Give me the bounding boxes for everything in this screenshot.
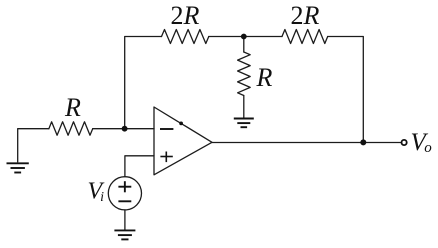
svg-text:Vi: Vi xyxy=(88,179,105,206)
source Vi polarity minus xyxy=(118,200,131,202)
source Vi polarity plus xyxy=(118,181,131,192)
svg-text:Vo: Vo xyxy=(411,129,433,156)
wire: top rail between R2a and node B xyxy=(209,36,244,38)
wire: node B to R2b xyxy=(244,36,282,38)
wire: op-amp non-inverting input down to source Vi xyxy=(125,156,154,177)
op-amp non-inverting input marker (plus) xyxy=(160,152,172,163)
wire: R3 lead down to middle ground xyxy=(243,96,245,118)
svg-text:2R: 2R xyxy=(171,1,200,30)
resistor R3 value R (vertical) xyxy=(238,52,251,96)
wire: top rail right corner down to output xyxy=(328,37,364,143)
resistor R2a value 2R (top-left) xyxy=(162,30,209,44)
resistor R1 value R (left) xyxy=(49,122,93,135)
dot on op-amp top edge xyxy=(179,122,183,126)
wire: R1 through node A into op-amp inverting input xyxy=(93,128,154,130)
ground (middle, below R3) xyxy=(234,119,254,128)
terminal Vo: open circle xyxy=(402,140,407,145)
wire: lead from node B down to resistor R3 xyxy=(243,37,245,53)
op-amp U1 triangle body xyxy=(154,107,212,175)
svg-text:R: R xyxy=(64,93,81,122)
wire: left ground riser and lead to R1 xyxy=(18,129,49,162)
ground (bottom, below source Vi) xyxy=(114,230,135,239)
source Vi circle xyxy=(108,177,141,210)
ground (left) xyxy=(7,163,29,172)
resistor R2b value 2R (top-right) xyxy=(282,30,328,44)
node C: output junction dot xyxy=(360,139,366,145)
op-amp inverting input marker (minus) xyxy=(160,128,173,130)
wire: source Vi to bottom ground xyxy=(124,210,126,230)
node A: inverting-input junction dot xyxy=(122,126,128,132)
svg-text:R: R xyxy=(256,63,273,92)
node B: top junction dot xyxy=(241,34,247,40)
svg-text:2R: 2R xyxy=(291,1,320,30)
wire: op-amp output to terminal xyxy=(212,142,401,144)
wire: node A up to top rail left corner xyxy=(125,37,162,129)
